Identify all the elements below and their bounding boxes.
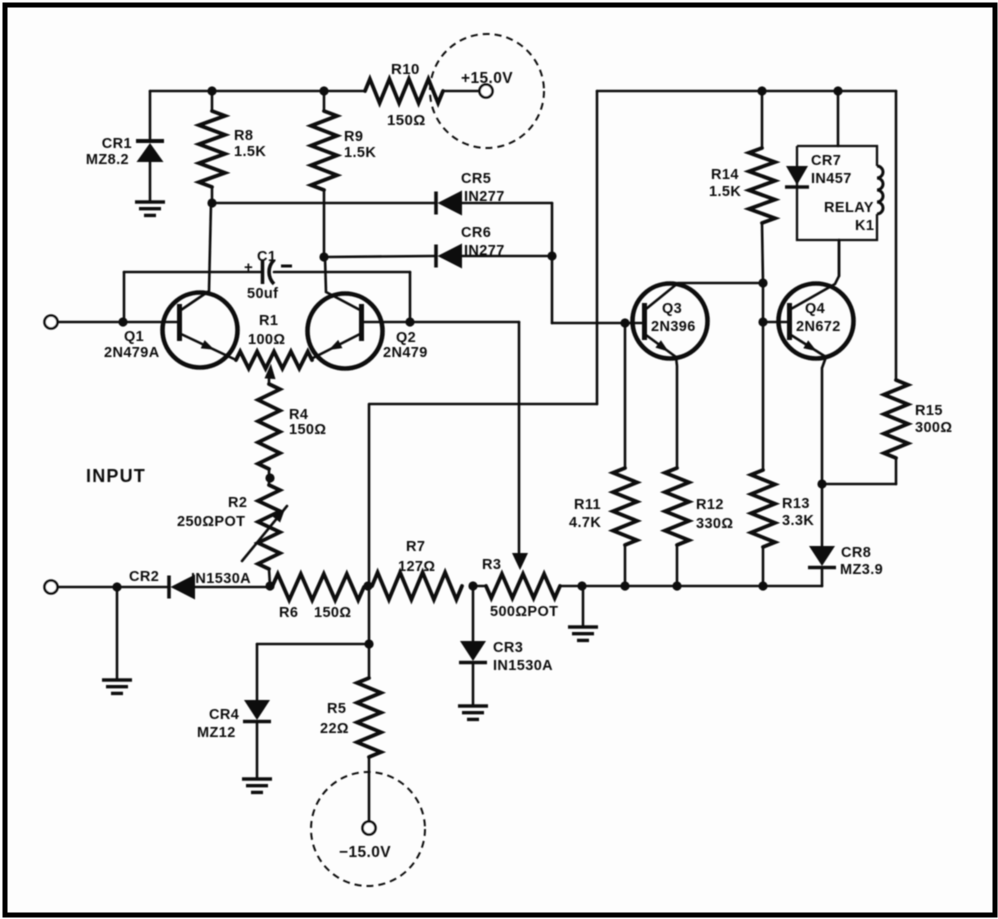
transistor Q4	[779, 240, 854, 484]
svg-text:−15.0V: −15.0V	[339, 844, 391, 861]
svg-text:2N672: 2N672	[796, 319, 841, 335]
svg-text:1.5K: 1.5K	[709, 184, 741, 200]
junction R14 top	[757, 86, 766, 95]
resistor R11	[569, 323, 637, 586]
wire bottom rail mid	[582, 585, 822, 588]
wire R3 to ground	[582, 586, 585, 626]
resistor R6	[272, 574, 364, 621]
transistor Q2	[308, 257, 428, 369]
resistor R1	[236, 313, 312, 369]
junction R9 top	[319, 86, 328, 95]
svg-text:4.7K: 4.7K	[569, 515, 601, 531]
svg-text:R5: R5	[327, 701, 346, 717]
wire +15V top rail	[150, 90, 480, 93]
junction R3 ground tap	[577, 581, 586, 590]
svg-text:IN277: IN277	[464, 189, 505, 205]
junction Q4 emitter / R15 / CR8	[817, 479, 826, 488]
wire R14 node to Q4 base	[763, 283, 788, 470]
svg-text:3.3K: 3.3K	[782, 513, 814, 529]
svg-text:100Ω: 100Ω	[248, 332, 285, 348]
wire Q2 base to R3 wiper	[363, 322, 528, 570]
ground input	[102, 680, 132, 693]
svg-text:22Ω: 22Ω	[320, 721, 349, 737]
svg-text:IN277: IN277	[464, 243, 505, 259]
svg-text:CR1: CR1	[102, 136, 132, 152]
resistor R5	[320, 678, 381, 821]
svg-text:IN1530A: IN1530A	[191, 571, 251, 587]
svg-text:MZ3.9: MZ3.9	[840, 562, 883, 578]
svg-text:R13: R13	[782, 496, 810, 512]
zener diode CR4	[197, 700, 271, 778]
svg-text:250ΩPOT: 250ΩPOT	[177, 514, 245, 530]
resistor R8	[199, 91, 266, 203]
svg-text:CR4: CR4	[209, 707, 239, 723]
svg-text:RELAY: RELAY	[824, 200, 874, 216]
junction Q3 base	[620, 318, 629, 327]
svg-text:150Ω: 150Ω	[289, 422, 326, 438]
svg-text:R9: R9	[344, 129, 363, 145]
capacitor C1	[124, 249, 410, 322]
svg-text:127Ω: 127Ω	[398, 559, 435, 575]
svg-text:+15.0V: +15.0V	[461, 70, 513, 87]
junction CR4 tap	[364, 639, 373, 648]
svg-text:R7: R7	[406, 539, 425, 555]
junction C1 right leg	[405, 317, 414, 326]
junction R7/R3/CR3 node	[468, 581, 477, 590]
svg-text:K1: K1	[855, 218, 874, 234]
ground CR3	[458, 706, 488, 719]
svg-text:50uf: 50uf	[247, 286, 278, 302]
svg-text:Q3: Q3	[662, 301, 682, 317]
resistor R10	[365, 61, 443, 129]
svg-text:R3: R3	[482, 557, 501, 573]
svg-text:CR8: CR8	[841, 545, 871, 561]
svg-text:R8: R8	[234, 128, 253, 144]
ground CR4	[242, 779, 272, 792]
svg-text:2N479: 2N479	[383, 345, 428, 361]
junction relay top	[833, 86, 842, 95]
svg-text:300Ω: 300Ω	[915, 420, 952, 436]
resistor R9	[311, 91, 376, 257]
svg-text:1.5K: 1.5K	[344, 145, 376, 161]
svg-text:CR5: CR5	[461, 171, 491, 187]
svg-text:R15: R15	[915, 403, 943, 419]
junction R6/R7 node	[363, 581, 372, 590]
junction CR6 node	[547, 251, 556, 260]
svg-text:R12: R12	[696, 497, 724, 513]
svg-text:CR2: CR2	[129, 569, 159, 585]
svg-text:C1: C1	[257, 249, 276, 265]
zener diode CR8	[808, 484, 883, 586]
power terminal -15.0V	[311, 772, 425, 886]
input terminal lower	[45, 581, 58, 594]
wire minus-15 riser	[368, 404, 371, 678]
junction Q3 collector / R14	[758, 278, 767, 287]
input terminal upper	[45, 316, 58, 329]
svg-text:CR3: CR3	[493, 640, 523, 656]
ground R3	[568, 627, 598, 640]
diode CR3	[459, 586, 553, 705]
potentiometer R3	[473, 557, 582, 620]
junction Q4 base	[758, 317, 767, 326]
ground CR1	[135, 202, 165, 215]
resistor R12	[665, 468, 733, 586]
resistor R14	[709, 91, 775, 283]
svg-text:330Ω: 330Ω	[696, 516, 733, 532]
diode CR2	[129, 569, 268, 600]
svg-text:Q1: Q1	[124, 329, 144, 345]
svg-text:Q4: Q4	[805, 301, 825, 317]
wire lower input	[58, 586, 168, 589]
svg-text:MZ8.2: MZ8.2	[86, 152, 129, 168]
wire CR4 branch	[257, 644, 369, 700]
svg-text:R14: R14	[711, 167, 739, 183]
junction Q2 collector / R9 / CR6	[319, 252, 328, 261]
wire input to Q1 base	[58, 321, 177, 324]
svg-text:+: +	[244, 259, 253, 276]
transistor Q3	[633, 283, 764, 468]
diode CR5	[212, 171, 552, 256]
junction R13 bottom	[758, 581, 767, 590]
svg-text:MZ12: MZ12	[197, 725, 236, 741]
svg-text:150Ω: 150Ω	[387, 112, 426, 129]
power terminal +15.0V	[430, 34, 544, 148]
svg-text:2N479A: 2N479A	[104, 345, 160, 361]
svg-text:IN457: IN457	[811, 171, 852, 187]
svg-text:R2: R2	[228, 495, 247, 511]
zener diode CR1	[86, 91, 164, 201]
svg-text:R1: R1	[259, 313, 278, 329]
junction C1 left leg	[118, 317, 127, 326]
resistor R15	[822, 380, 952, 484]
svg-text:IN1530A: IN1530A	[493, 658, 553, 674]
junction input ground tap	[112, 582, 121, 591]
svg-text:R4: R4	[289, 407, 308, 423]
svg-text:150Ω: 150Ω	[314, 605, 351, 621]
junction R12 bottom	[672, 581, 681, 590]
wire right-side top rail	[370, 91, 896, 404]
resistor R7	[372, 539, 462, 600]
junction R8 top	[207, 86, 216, 95]
svg-text:1.5K: 1.5K	[234, 144, 266, 160]
relay K1 with diode CR7	[785, 91, 883, 276]
transistor Q1	[104, 203, 238, 368]
junction R4/R2 node	[265, 473, 274, 482]
svg-text:R11: R11	[574, 497, 601, 513]
svg-text:CR6: CR6	[461, 225, 491, 241]
resistor R13	[751, 470, 814, 586]
svg-text:R6: R6	[279, 605, 298, 621]
svg-text:500ΩPOT: 500ΩPOT	[490, 604, 558, 620]
resistor R4	[258, 364, 326, 469]
svg-text:INPUT: INPUT	[86, 466, 146, 486]
diode CR6	[324, 225, 552, 269]
junction R2 bottom	[265, 581, 274, 590]
wire to input ground	[116, 587, 119, 679]
label INPUT	[86, 466, 146, 486]
svg-text:2N396: 2N396	[651, 319, 696, 335]
svg-text:CR7: CR7	[811, 153, 841, 169]
wire CR5/CR6 to Q3 base	[552, 256, 643, 323]
svg-text:R10: R10	[391, 61, 420, 78]
svg-text:Q2: Q2	[396, 330, 416, 346]
potentiometer R2	[177, 485, 287, 586]
junction R8 bottom node	[207, 198, 216, 207]
junction R11 bottom	[620, 581, 629, 590]
